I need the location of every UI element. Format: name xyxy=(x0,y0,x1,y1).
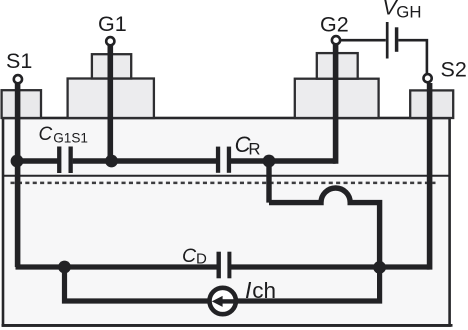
wire bottom-left horizontal to CD xyxy=(16,264,217,269)
battery VGH long plate xyxy=(386,22,389,59)
device body (substrate cross-section) xyxy=(3,118,450,326)
svg-text:C: C xyxy=(182,245,197,267)
junction dot at CD left xyxy=(58,261,71,274)
wire S1 vertical xyxy=(15,83,21,267)
terminal G2 xyxy=(332,36,340,44)
gate stack G1 lower xyxy=(68,79,154,119)
wire bus right (CR dot to G2 corner) xyxy=(231,158,336,163)
svg-text:ch: ch xyxy=(252,278,276,303)
gate stack G2 upper xyxy=(317,53,358,79)
wire G2 vertical xyxy=(333,45,339,164)
terminal S1 xyxy=(14,75,22,83)
wire CR down from dot xyxy=(266,158,271,203)
battery VGH short plate xyxy=(395,27,399,52)
contact S2 region xyxy=(410,90,453,118)
wire bus left (S1 to CG1S1) xyxy=(16,158,58,163)
svg-text:R: R xyxy=(248,139,260,158)
junction dot at CD right / S2 xyxy=(373,261,386,274)
junction dot at S1/bus xyxy=(11,155,24,168)
capacitor CG1S1 plates xyxy=(57,147,73,174)
svg-text:G2: G2 xyxy=(320,12,349,36)
junction dot at CR/bus xyxy=(263,155,276,168)
capacitor CR plates xyxy=(216,147,231,173)
wire S2 vertical xyxy=(427,83,433,270)
svg-text:C: C xyxy=(39,124,53,145)
wire G1 vertical xyxy=(108,46,114,164)
junction dot at G1/bus xyxy=(105,155,118,168)
svg-text:G1: G1 xyxy=(98,12,127,36)
svg-text:GH: GH xyxy=(396,3,421,22)
current source Ich xyxy=(210,288,237,314)
wire battery to S2 circle xyxy=(398,40,427,73)
channel dashed line xyxy=(11,182,436,185)
terminal G1 xyxy=(106,37,114,45)
wire Ich right branch xyxy=(237,267,379,301)
wire bus middle (CG1S1 to CR) xyxy=(73,158,216,163)
gate stack G1 upper xyxy=(92,54,131,78)
svg-text:D: D xyxy=(196,251,207,268)
svg-text:I: I xyxy=(245,277,252,303)
heterostructure interface line xyxy=(3,175,449,177)
terminal S2 xyxy=(424,74,432,82)
bottom border extension xyxy=(2,324,453,327)
svg-text:S2: S2 xyxy=(441,58,467,82)
capacitor CD plates xyxy=(217,252,232,279)
gate stack G2 lower xyxy=(295,79,379,118)
wire Ich left branch xyxy=(65,267,208,301)
contact S1 region xyxy=(2,90,41,118)
svg-text:G1S1: G1S1 xyxy=(53,130,88,145)
wire CD right to S2 corner xyxy=(231,264,430,269)
svg-text:S1: S1 xyxy=(6,49,32,73)
wire G2 circle to battery xyxy=(341,39,386,42)
wire hump (crossover) xyxy=(269,188,380,267)
